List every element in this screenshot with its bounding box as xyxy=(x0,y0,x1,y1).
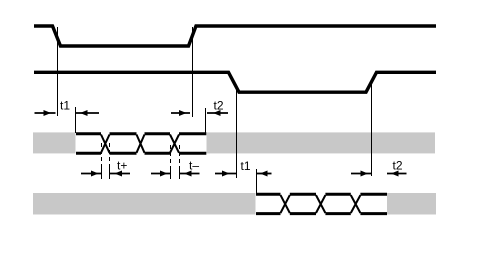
arrow t2 left (row2) xyxy=(351,171,371,177)
BUS1 crossover X1 xyxy=(101,135,110,153)
arrow t+ right xyxy=(110,171,130,177)
svg-text:t+: t+ xyxy=(117,159,127,173)
svg-text:t2: t2 xyxy=(393,159,403,173)
gray bar BUS1 left xyxy=(33,132,76,153)
reference line at S1 falling edge (x=57) xyxy=(57,27,59,116)
BUS2 crossover X2 xyxy=(316,195,325,213)
gray bar BUS1 right xyxy=(207,132,436,153)
dashed line right of BUS1 crossover X1 xyxy=(109,143,111,167)
BUS1 valid top line xyxy=(76,132,206,135)
tick at BUS1 valid end (x=205.5) xyxy=(205,108,207,133)
tick below dashed line x=179 xyxy=(179,167,181,179)
BUS1 crossover X3 xyxy=(170,135,179,153)
arrow t+ left xyxy=(81,171,101,177)
svg-text:t1: t1 xyxy=(241,159,251,173)
tick below dashed line x=170 xyxy=(170,167,172,179)
arrow t1 right (row2) xyxy=(257,171,272,177)
signal S2 trace (second waveform) xyxy=(34,72,436,92)
BUS1 valid bottom line xyxy=(76,152,206,155)
reference line at S1 rising edge (x=192) xyxy=(192,27,194,117)
tick at BUS2 valid start (x=256.5) xyxy=(256,169,258,193)
reference line at S2 rising edge (x=371) xyxy=(371,80,373,176)
BUS2 valid top line xyxy=(256,193,387,196)
arrow t1 left (row1) xyxy=(35,110,56,116)
gray bar BUS2 left xyxy=(33,193,256,215)
arrow t- left xyxy=(151,171,170,177)
dashed line left of BUS1 crossover X1 xyxy=(101,143,103,167)
tick at BUS1 valid start (x=75.5) xyxy=(75,107,77,133)
reference line at S2 falling edge (x=236) xyxy=(236,88,238,178)
tick below dashed line x=101 xyxy=(101,167,103,179)
svg-text:t–: t– xyxy=(189,159,199,173)
tick below dashed line x=109 xyxy=(109,167,111,179)
BUS2 crossover X3 xyxy=(351,195,361,213)
svg-text:t1: t1 xyxy=(60,99,70,113)
dashed line left of BUS1 crossover X3 xyxy=(170,145,172,167)
dashed line right of BUS1 crossover X3 xyxy=(179,145,181,167)
signal S1 trace (top waveform) xyxy=(34,26,436,46)
arrow t2 right (row1) xyxy=(207,110,228,116)
gray bar BUS2 right xyxy=(387,193,436,215)
arrow t2 right (row2) xyxy=(387,171,407,177)
arrow t2 left (row1) xyxy=(171,110,190,116)
arrow t1 right (row1) xyxy=(76,110,99,116)
BUS1 crossover X2 xyxy=(137,135,145,153)
arrow t- right xyxy=(180,171,200,177)
svg-text:t2: t2 xyxy=(214,99,224,113)
arrow t1 left (row2) xyxy=(215,171,236,177)
BUS2 valid bottom line xyxy=(256,212,387,215)
BUS2 crossover X1 xyxy=(281,195,290,213)
